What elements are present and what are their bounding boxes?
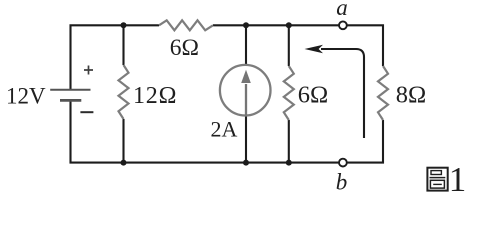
wire 6ohm right branch lower [288, 120, 290, 163]
svg-text:6Ω: 6Ω [170, 35, 199, 61]
battery 12V top plate [50, 89, 90, 91]
wire top middle: from 6ohm resistor to terminal a [213, 24, 339, 26]
svg-text:6Ω: 6Ω [298, 81, 328, 108]
node dot bottom at 12ohm branch [121, 160, 127, 166]
resistor 12ohm vertical zigzag [119, 65, 129, 119]
resistor 8ohm vertical zigzag on right edge [378, 66, 388, 120]
terminal b open circle [339, 159, 347, 167]
resistor R 6ohm horizontal zigzag [159, 20, 213, 30]
wire 6ohm right branch upper [288, 25, 290, 66]
svg-text:a: a [336, 0, 348, 20]
node dot top at current source branch [243, 22, 249, 28]
resistor 6ohm right vertical zigzag [284, 66, 294, 120]
wire current-source branch upper [245, 25, 247, 66]
label figure: glyph tu (drawn) [427, 168, 447, 191]
svg-text:1: 1 [449, 160, 467, 199]
wire 12ohm branch upper [122, 25, 124, 65]
battery 12V bottom plate [60, 99, 81, 102]
svg-text:12V: 12V [6, 84, 46, 109]
wire top-right: terminal a to right corner, down right edge to 8ohm [347, 25, 383, 66]
wire current-source branch lower [245, 116, 247, 163]
svg-text:8Ω: 8Ω [396, 81, 426, 108]
current source arrow shaft [245, 84, 247, 116]
wire right edge lower: 8ohm to bottom, left to terminal b [347, 120, 383, 163]
svg-text:2A: 2A [211, 117, 238, 142]
wire left edge lower + bottom wire to terminal b [71, 100, 339, 162]
current source arrowhead [241, 70, 251, 83]
terminal a open circle [339, 21, 347, 29]
battery minus sign [80, 111, 93, 113]
svg-text:12Ω: 12Ω [133, 83, 177, 109]
current direction arrow wire [321, 49, 364, 138]
node dot bottom at 6ohm branch [286, 160, 292, 166]
node dot top at 6ohm branch [286, 22, 292, 28]
node dot bottom at current source branch [243, 160, 249, 166]
svg-text:b: b [336, 170, 348, 195]
wire 12ohm branch lower [122, 119, 124, 163]
wire top-left: left edge upper + top wire to 6ohm resistor [71, 25, 160, 89]
node dot top at 12ohm branch [121, 22, 127, 28]
battery plus sign [84, 66, 93, 75]
current direction arrowhead [305, 45, 324, 53]
current source I1 circle [220, 65, 271, 116]
